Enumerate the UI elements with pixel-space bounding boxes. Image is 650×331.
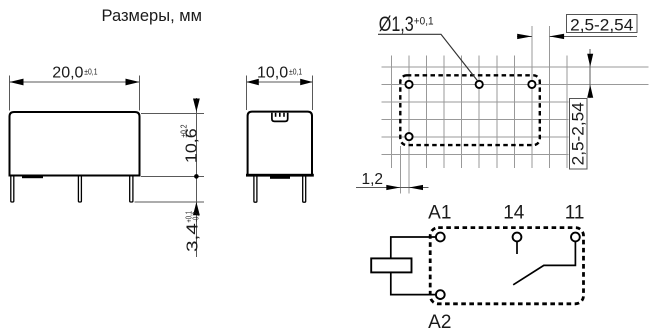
svg-text:Ø1,3: Ø1,3 (379, 13, 414, 37)
svg-text:±0,1: ±0,1 (289, 67, 302, 77)
svg-text:11: 11 (565, 203, 585, 224)
svg-text:14: 14 (503, 203, 525, 224)
svg-text:A1: A1 (428, 203, 451, 224)
svg-text:1,2: 1,2 (362, 171, 384, 188)
svg-text:A2: A2 (428, 312, 451, 331)
svg-text:+0,1: +0,1 (414, 15, 434, 28)
svg-text:3,4: 3,4 (183, 223, 201, 252)
svg-text:20,0: 20,0 (52, 65, 83, 82)
svg-text:±0,2: ±0,2 (179, 124, 189, 137)
svg-text:Размеры, мм: Размеры, мм (102, 7, 202, 25)
svg-text:2,5-2,54: 2,5-2,54 (570, 16, 633, 34)
svg-text:-0,2: -0,2 (190, 212, 200, 222)
svg-text:±0,1: ±0,1 (84, 67, 97, 77)
svg-text:10,0: 10,0 (257, 65, 288, 82)
svg-text:2,5-2,54: 2,5-2,54 (569, 102, 587, 165)
